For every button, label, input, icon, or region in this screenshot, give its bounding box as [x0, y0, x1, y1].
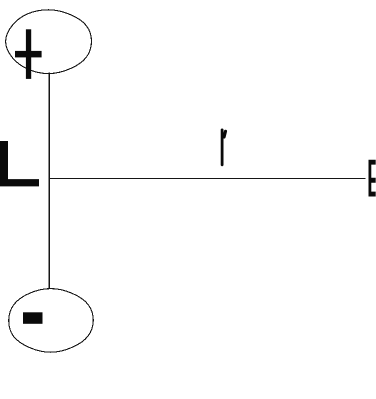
wire (vertical, separation L between terminals): [48, 73, 50, 289]
minus sign (- polarity mark): [23, 312, 43, 324]
wire (horizontal, distance r to field point): [49, 177, 365, 179]
label r: [222, 130, 225, 165]
positive terminal ellipse (charge +): [6, 10, 92, 74]
label E (field point, clipped at right edge): [369, 160, 376, 197]
plus sign (+ polarity mark): [15, 29, 42, 79]
negative terminal ellipse (charge -): [9, 289, 94, 353]
label L: [0, 141, 39, 186]
